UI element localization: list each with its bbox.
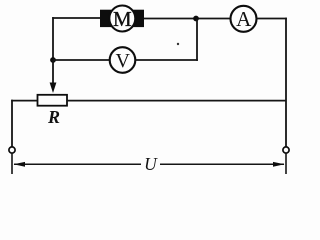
wire top-left horizontal bbox=[52, 17, 101, 19]
svg-text:R: R bbox=[47, 107, 60, 127]
rheostat slider arrow bbox=[50, 60, 57, 93]
motor M brushes bbox=[100, 10, 144, 27]
wire voltmeter right bbox=[135, 59, 198, 61]
motor M circle bbox=[109, 6, 135, 32]
wire right vertical bbox=[285, 18, 287, 147]
node junction dot top bbox=[193, 16, 199, 22]
wire ammeter to right corner bbox=[257, 18, 287, 20]
dimension arrow left bbox=[14, 162, 142, 167]
dimension arrow right bbox=[160, 162, 285, 167]
terminal right bbox=[283, 147, 289, 153]
wire voltmeter up to junction bbox=[196, 19, 198, 61]
dimension tick left bbox=[11, 153, 13, 174]
node junction dot left bbox=[50, 57, 56, 63]
wire motor to ammeter bbox=[144, 18, 231, 20]
svg-text:A: A bbox=[236, 7, 252, 31]
svg-text:U: U bbox=[144, 154, 158, 174]
svg-text:V: V bbox=[115, 50, 130, 72]
wire junction to voltmeter bbox=[53, 59, 110, 61]
resistor R body bbox=[38, 95, 68, 106]
wire left-bottom vertical bbox=[11, 100, 13, 147]
speck bbox=[177, 43, 179, 45]
wire rheostat left bbox=[11, 100, 37, 102]
terminal left bbox=[9, 147, 15, 153]
svg-text:M: M bbox=[113, 7, 132, 31]
dimension tick right bbox=[285, 153, 287, 174]
ammeter A circle bbox=[231, 6, 257, 32]
wire rheostat to right side bbox=[67, 100, 286, 102]
voltmeter V circle bbox=[110, 47, 136, 73]
wire left vertical bbox=[52, 17, 54, 60]
